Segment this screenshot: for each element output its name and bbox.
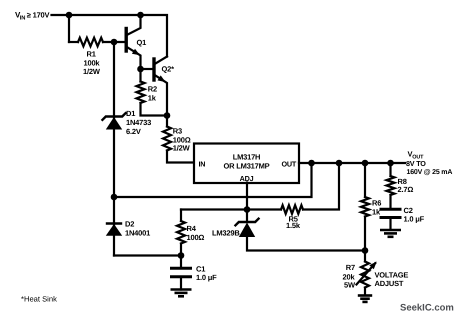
svg-text:1.5k: 1.5k	[286, 221, 301, 230]
svg-text:8V TO: 8V TO	[406, 159, 426, 168]
svg-text:1/2W: 1/2W	[173, 144, 191, 153]
svg-text:1.0 μF: 1.0 μF	[196, 273, 217, 282]
svg-text:C2: C2	[404, 206, 413, 215]
svg-text:5W: 5W	[344, 280, 356, 289]
svg-text:Q1: Q1	[137, 38, 147, 47]
svg-text:IN: IN	[199, 159, 206, 168]
svg-text:R3: R3	[173, 126, 182, 135]
svg-text:1/2W: 1/2W	[83, 67, 101, 76]
svg-text:1k: 1k	[148, 93, 157, 102]
svg-text:R6: R6	[372, 199, 381, 208]
svg-text:R7: R7	[346, 263, 355, 272]
svg-text:1N4733: 1N4733	[126, 118, 151, 127]
svg-text:Q2*: Q2*	[162, 65, 175, 74]
svg-text:R4: R4	[187, 224, 197, 233]
svg-text:D1: D1	[126, 109, 135, 118]
svg-text:1N4001: 1N4001	[125, 229, 150, 238]
svg-text:160V @ 25 mA: 160V @ 25 mA	[407, 169, 453, 176]
svg-text:ADJ: ADJ	[240, 174, 254, 183]
svg-text:100Ω: 100Ω	[187, 233, 205, 242]
svg-text:ADJUST: ADJUST	[375, 279, 404, 288]
svg-text:IN: IN	[20, 15, 25, 21]
svg-text:1.0 μF: 1.0 μF	[404, 215, 425, 224]
svg-text:1k: 1k	[372, 207, 381, 216]
svg-text:LM317H: LM317H	[233, 153, 261, 162]
svg-text:≥ 170V: ≥ 170V	[27, 11, 50, 20]
svg-text:100k: 100k	[84, 58, 101, 67]
svg-text:*Heat Sink: *Heat Sink	[21, 294, 57, 303]
svg-text:2.7Ω: 2.7Ω	[398, 185, 414, 194]
svg-text:SeekIC.com: SeekIC.com	[400, 302, 454, 313]
svg-text:R1: R1	[87, 50, 96, 59]
svg-text:OR LM317MP: OR LM317MP	[224, 161, 270, 170]
svg-text:OUT: OUT	[282, 159, 297, 168]
svg-text:D2: D2	[125, 220, 134, 229]
svg-text:LM329B: LM329B	[212, 228, 240, 237]
svg-text:R2: R2	[148, 85, 157, 94]
svg-text:6.2V: 6.2V	[126, 127, 141, 136]
